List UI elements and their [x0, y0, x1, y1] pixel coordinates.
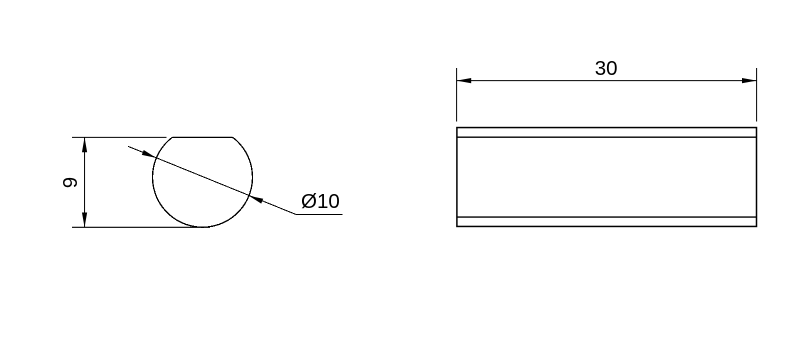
left view: circular profile (arc below flat) — [153, 137, 253, 227]
inner edge line top (flat edge) — [457, 136, 757, 138]
dimension line 30 (horizontal) — [457, 80, 757, 82]
extension line right of dim 30 — [756, 68, 758, 122]
diameter leader line through circle — [128, 146, 342, 214]
left view: flat top chord — [173, 136, 233, 138]
extension line left of dim 30 — [456, 68, 458, 122]
arrowhead left of dim 30 — [457, 78, 472, 83]
inner edge line bottom — [457, 216, 757, 218]
leader arrowhead lower-right (points into circle) — [249, 196, 263, 204]
right view: rectangle outline — [457, 128, 757, 227]
arrowhead right of dim 30 — [742, 78, 757, 83]
arrowhead top of dim 9 — [82, 137, 87, 152]
arrowhead bottom of dim 9 — [82, 213, 87, 228]
extension line top (flat level) — [72, 136, 167, 138]
svg-text:Ø10: Ø10 — [301, 190, 340, 213]
svg-text:9: 9 — [59, 177, 82, 188]
svg-text:30: 30 — [595, 57, 618, 80]
extension line bottom (tangent to circle) — [72, 226, 210, 228]
dimension line 9 (vertical) — [84, 137, 86, 227]
leader arrowhead upper-left (points into circle) — [142, 150, 156, 158]
